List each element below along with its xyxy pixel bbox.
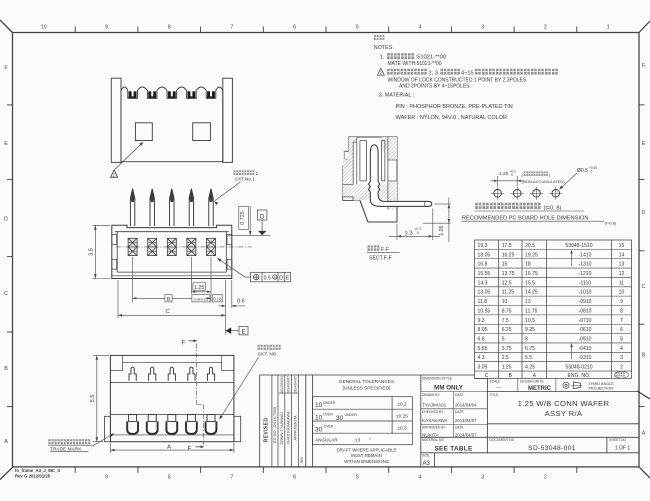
svg-text:NOTES: NOTES (374, 45, 393, 51)
dimension A (110, 443, 233, 453)
svg-text:9: 9 (105, 24, 108, 30)
frame zone numbers bottom (105, 475, 547, 481)
dimension 0.725 (228, 206, 271, 235)
svg-text:3: 3 (481, 24, 484, 30)
svg-text:B: B (167, 297, 171, 303)
dimension 1.25 pitch (191, 257, 211, 303)
svg-text:18.05: 18.05 (478, 252, 491, 258)
svg-text:3.75: 3.75 (502, 346, 512, 352)
svg-text:MATE WITH:51021-**00: MATE WITH:51021-**00 (388, 61, 442, 67)
dimension 5.5 (93, 355, 109, 441)
third angle projection symbol (563, 382, 582, 389)
svg-text:±0.2: ±0.2 (397, 401, 407, 407)
position tolerance frame (218, 259, 291, 282)
svg-text:SCALE: SCALE (490, 380, 502, 384)
svg-text:MUST REMAIN: MUST REMAIN (351, 453, 382, 458)
svg-text:CKT. NO.: CKT. NO. (258, 352, 278, 358)
top view housing (111, 78, 232, 162)
bottom view solder tails (127, 415, 216, 434)
svg-text:2014/04/04: 2014/04/04 (455, 402, 477, 407)
svg-text:B: B (4, 366, 8, 372)
svg-text:8.05: 8.05 (478, 327, 488, 333)
svg-text:SHEET NO: SHEET NO (609, 438, 626, 442)
svg-text:16.8: 16.8 (478, 262, 488, 268)
svg-text:DRWN:TYAJIMA01: DRWN:TYAJIMA01 (280, 412, 284, 445)
svg-text:8.75: 8.75 (502, 308, 512, 314)
svg-text:-0710: -0710 (578, 318, 591, 324)
svg-text:F-F: F-F (381, 247, 389, 253)
svg-text:10.55: 10.55 (478, 308, 491, 314)
trade mark label (48, 439, 90, 444)
svg-text:(t=0. 8): (t=0. 8) (544, 206, 562, 212)
svg-text:20.5: 20.5 (525, 243, 535, 249)
svg-text:16.75: 16.75 (525, 271, 538, 277)
svg-text:PIN : PHOSPHOR BRONZE, PRE-PLA: PIN : PHOSPHOR BRONZE, PRE-PLATED TIN (396, 104, 513, 110)
svg-text:4: 4 (419, 24, 422, 30)
front view centerline (116, 246, 252, 248)
svg-text:RECOMMENDED PC BOARD HOLE DIME: RECOMMENDED PC BOARD HOLE DIMENSION (462, 216, 589, 222)
svg-text:A3: A3 (423, 461, 431, 467)
svg-text:15: 15 (619, 243, 625, 249)
svg-text:GENERAL TOLERANCES: GENERAL TOLERANCES (339, 379, 394, 384)
svg-text:5.5: 5.5 (90, 395, 96, 403)
svg-text:3. MATERIAL :: 3. MATERIAL : (379, 92, 414, 98)
CKT NO label (258, 345, 281, 350)
svg-text:SD-53048-001: SD-53048-001 (528, 445, 576, 452)
svg-text:10: 10 (41, 24, 47, 30)
svg-text:53048-1510: 53048-1510 (565, 243, 592, 249)
svg-text:DOCUMENT NO: DOCUMENT NO (490, 438, 515, 442)
svg-text:C: C (165, 309, 169, 315)
table header kyokusuu oval (614, 371, 628, 378)
svg-text:10: 10 (502, 299, 508, 305)
svg-text:-1010: -1010 (578, 290, 591, 296)
svg-text:-0810: -0810 (578, 308, 591, 314)
svg-text:SECT.F-F: SECT.F-F (369, 256, 392, 262)
svg-text:5: 5 (356, 24, 359, 30)
svg-text:----: ---- (496, 385, 503, 390)
section label SECT F-F (368, 245, 380, 250)
svg-text:DATE: DATE (455, 426, 464, 430)
svg-text:3: 3 (620, 355, 623, 361)
svg-text:0: 0 (591, 170, 593, 174)
svg-text:14.3: 14.3 (478, 280, 488, 286)
dimension 1.05 (423, 198, 451, 243)
svg-text:2, 3: 2, 3 (429, 70, 438, 76)
svg-text:-0310: -0310 (578, 355, 591, 361)
scale and units row (518, 378, 556, 391)
svg-text:1.25: 1.25 (499, 171, 509, 177)
svg-text:18: 18 (525, 262, 531, 268)
svg-text:2014/04/07: 2014/04/07 (455, 418, 477, 423)
svg-text:DATE: DATE (455, 410, 464, 414)
svg-text:8: 8 (620, 308, 623, 314)
svg-text:8: 8 (168, 475, 171, 481)
datum D (257, 210, 267, 231)
svg-text:5.55: 5.55 (478, 346, 488, 352)
svg-text:REV: REV (300, 456, 304, 463)
svg-text:1.: 1. (380, 55, 385, 61)
note 2 leader and triangle (111, 143, 142, 177)
svg-text:5: 5 (620, 337, 623, 343)
svg-text:4.25: 4.25 (525, 365, 535, 371)
svg-text:13: 13 (619, 262, 625, 268)
svg-text:(t=0.8): (t=0.8) (605, 220, 617, 225)
svg-text:A: A (642, 431, 646, 437)
svg-text:2014/04/07: 2014/04/07 (455, 432, 477, 437)
top view lock windows (135, 123, 210, 141)
svg-text:6: 6 (293, 475, 296, 481)
svg-text:DIMENSION STYLE: DIMENSION STYLE (422, 376, 453, 380)
svg-text:13.05: 13.05 (478, 290, 491, 296)
svg-text:fo_frame_A3_J_MC_S: fo_frame_A3_J_MC_S (15, 468, 60, 473)
svg-text:C: C (642, 284, 646, 290)
section line F-F (189, 341, 204, 447)
svg-text:15.5: 15.5 (525, 280, 535, 286)
svg-text:DATE: DATE (455, 393, 464, 397)
svg-text:8: 8 (168, 24, 171, 30)
svg-text:WITHIN DIMENSIONS: WITHIN DIMENSIONS (344, 459, 389, 464)
title text (490, 393, 610, 418)
svg-text:1 OF 1: 1 OF 1 (615, 445, 631, 451)
frame id text (15, 468, 60, 479)
general tolerances block (313, 397, 413, 445)
svg-text:2.3: 2.3 (404, 230, 413, 237)
bottom view pin tips (129, 367, 215, 381)
svg-text:4: 4 (620, 346, 623, 352)
svg-text:15.55: 15.55 (478, 271, 491, 277)
svg-text:1.25 W/B CONN WAFER: 1.25 W/B CONN WAFER (518, 399, 610, 408)
svg-text:D: D (642, 210, 646, 216)
svg-text:3.05: 3.05 (478, 365, 488, 371)
dimension style / sign-off column (421, 392, 488, 438)
svg-text:±0.3: ±0.3 (397, 426, 407, 432)
svg-text:0.725: 0.725 (240, 211, 246, 225)
svg-text:6.25: 6.25 (502, 327, 512, 333)
dimension table (475, 240, 632, 378)
svg-text:THIRD ANGLE: THIRD ANGLE (589, 382, 615, 386)
svg-text:SIZE: SIZE (422, 453, 430, 457)
svg-text:1.25: 1.25 (194, 285, 205, 291)
svg-text:B: B (509, 373, 513, 379)
front view housing body (112, 225, 232, 278)
svg-text:10: 10 (315, 402, 323, 409)
svg-text:-1110: -1110 (579, 280, 591, 286)
table ditto arrows (571, 251, 573, 267)
svg-text:11.8: 11.8 (478, 299, 488, 305)
svg-text:OVER: OVER (324, 424, 334, 428)
svg-text:53048-0210: 53048-0210 (565, 365, 592, 371)
svg-text:2: 2 (544, 24, 547, 30)
svg-text:5: 5 (502, 337, 505, 343)
front view pins (130, 189, 213, 226)
pcb pitch dimension 1.25 (491, 176, 525, 186)
dimension 3.5 (93, 225, 111, 278)
svg-text:6: 6 (620, 327, 623, 333)
svg-text:2.5: 2.5 (502, 355, 509, 361)
svg-text:F: F (188, 446, 192, 452)
svg-text:METRIC: METRIC (528, 386, 552, 392)
svg-text:KASAKAWA: KASAKAWA (422, 418, 448, 423)
svg-text:6.8: 6.8 (478, 337, 485, 343)
svg-text:OVER: OVER (323, 413, 333, 417)
svg-text:12.5: 12.5 (502, 280, 512, 286)
svg-text:4~15: 4~15 (461, 70, 474, 76)
title block outline (260, 375, 639, 467)
svg-text:2014/04/07: 2014/04/07 (287, 376, 291, 394)
svg-text:APPR:NUKITA: APPR:NUKITA (293, 415, 297, 441)
section view lower flap (360, 200, 397, 222)
svg-text:0: 0 (511, 173, 513, 177)
svg-text:NUKITA: NUKITA (422, 432, 439, 437)
datum E (226, 328, 232, 334)
dimension 0.6 (219, 280, 246, 308)
svg-text:16.25: 16.25 (502, 252, 515, 258)
svg-text:10: 10 (619, 290, 625, 296)
svg-text:DESIGN UNITS: DESIGN UNITS (520, 380, 544, 384)
svg-text:19.3: 19.3 (478, 243, 488, 249)
svg-text:1.25: 1.25 (502, 365, 512, 371)
frame zone letters right (642, 63, 646, 437)
svg-text:0.5: 0.5 (264, 276, 271, 282)
svg-text:REVISED: REVISED (264, 418, 270, 443)
svg-text:±3: ±3 (355, 437, 361, 442)
svg-text:0.4±0.05: 0.4±0.05 (194, 297, 208, 301)
svg-text:E: E (642, 141, 646, 147)
bottom view housing (105, 355, 241, 441)
svg-text:SEE TABLE: SEE TABLE (434, 446, 473, 453)
frame zone numbers top (41, 24, 610, 30)
svg-text:9.3: 9.3 (478, 318, 485, 324)
svg-text:17.5: 17.5 (502, 243, 512, 249)
svg-text:7.5: 7.5 (502, 318, 509, 324)
svg-text:1: 1 (256, 171, 259, 176)
svg-text:AND 2POINTS BY 4~15POLES.: AND 2POINTS BY 4~15POLES. (399, 83, 471, 89)
svg-text:MATERIAL NO: MATERIAL NO (422, 438, 444, 442)
svg-text:A: A (167, 445, 171, 451)
svg-text:11: 11 (619, 280, 624, 286)
svg-text:±0.25: ±0.25 (396, 414, 408, 420)
svg-text:-0910: -0910 (578, 299, 591, 305)
svg-text:1: 1 (607, 24, 610, 30)
svg-text:2: 2 (620, 365, 623, 371)
svg-text:9: 9 (620, 299, 623, 305)
svg-text:7: 7 (230, 24, 233, 30)
svg-text:ENG. NO.: ENG. NO. (568, 373, 591, 379)
svg-text:-1310: -1310 (578, 262, 591, 268)
svg-text:UNDER: UNDER (345, 413, 358, 417)
dimension C (118, 280, 226, 335)
svg-text:7: 7 (620, 318, 623, 324)
svg-text:APPROVED BY: APPROVED BY (422, 426, 446, 430)
CKT No.1 label (234, 170, 255, 175)
svg-text:DRAWN BY: DRAWN BY (422, 393, 440, 397)
svg-text:D: D (4, 217, 8, 223)
svg-text:E: E (285, 276, 289, 282)
document number row (490, 438, 631, 452)
svg-text:UNDER: UNDER (323, 401, 336, 405)
svg-text:5.5: 5.5 (525, 355, 532, 361)
svg-text:2014/04/04: 2014/04/04 (280, 376, 284, 394)
svg-text:1.05: 1.05 (439, 225, 445, 235)
svg-text:B: B (642, 353, 646, 359)
svg-text:-1410: -1410 (578, 252, 591, 258)
section view housing hatched (343, 137, 397, 222)
svg-text:14: 14 (619, 252, 625, 258)
svg-text:19.25: 19.25 (525, 252, 538, 258)
svg-text:6.75: 6.75 (525, 346, 535, 352)
svg-text:4.3: 4.3 (478, 355, 485, 361)
svg-text:2014/04/07: 2014/04/07 (293, 376, 297, 394)
svg-text:-1210: -1210 (578, 271, 591, 277)
svg-text:DRAFT WHERE APPLICABLE: DRAFT WHERE APPLICABLE (337, 447, 397, 452)
svg-text:10: 10 (315, 414, 323, 421)
svg-text:-0510: -0510 (578, 337, 591, 343)
svg-text:CHKD:KASAKAWA: CHKD:KASAKAWA (287, 411, 291, 444)
svg-text:E: E (4, 141, 8, 147)
pcb caption japanese (475, 203, 540, 209)
svg-text:F: F (182, 340, 186, 346)
svg-text:11.75: 11.75 (525, 308, 538, 314)
svg-text:C: C (4, 291, 8, 297)
svg-text:12: 12 (619, 271, 625, 277)
section view inner walls (343, 137, 397, 209)
dimension 2.3 (389, 209, 440, 241)
svg-text:9: 9 (105, 475, 108, 481)
svg-text:9.25: 9.25 (525, 327, 535, 333)
svg-text:8: 8 (525, 337, 528, 343)
top view contact slots (129, 91, 215, 98)
svg-text:TITLE: TITLE (490, 393, 500, 397)
svg-text:CHECKED BY: CHECKED BY (422, 410, 444, 414)
svg-text:13.75: 13.75 (502, 271, 515, 277)
svg-text:TYAJIMA01: TYAJIMA01 (422, 402, 447, 407)
svg-text::51021-**00: :51021-**00 (416, 55, 447, 61)
svg-text:13: 13 (525, 299, 531, 305)
svg-text:PROJECTION: PROJECTION (589, 387, 614, 391)
svg-text:3.5: 3.5 (89, 248, 95, 256)
svg-text:-0610: -0610 (578, 327, 591, 333)
svg-text:10.5: 10.5 (525, 318, 535, 324)
svg-text:-0410: -0410 (578, 346, 591, 352)
front view contacts crosshatched (128, 238, 215, 255)
svg-text:6: 6 (293, 24, 296, 30)
svg-text:MM ONLY: MM ONLY (434, 385, 464, 392)
svg-text:4: 4 (419, 475, 422, 481)
svg-text:CKT.No.1: CKT.No.1 (235, 177, 255, 182)
svg-text:0.6: 0.6 (237, 299, 245, 305)
pcb hole circles (491, 187, 562, 200)
svg-text:0.18: 0.18 (213, 297, 222, 302)
svg-text:(NON-ACCUMULATED): (NON-ACCUMULATED) (522, 179, 566, 184)
svg-text:ASSY R/A: ASSY R/A (545, 409, 583, 418)
svg-text:30: 30 (315, 426, 323, 433)
svg-text:A: A (4, 439, 8, 445)
svg-text:2: 2 (544, 475, 547, 481)
svg-text:D: D (279, 276, 283, 282)
svg-text:3: 3 (481, 475, 484, 481)
svg-text:EC NO. J2014-7500: EC NO. J2014-7500 (272, 406, 277, 443)
svg-text:ANGULAR: ANGULAR (315, 437, 338, 442)
svg-text:Ø0.5: Ø0.5 (577, 168, 588, 174)
revision block (272, 375, 298, 467)
svg-text:D: D (260, 213, 265, 220)
svg-text:7: 7 (230, 475, 233, 481)
svg-text:M: M (274, 276, 277, 280)
svg-text:11.25: 11.25 (502, 290, 515, 296)
svg-text:14.25: 14.25 (525, 290, 538, 296)
dimension B row (133, 257, 223, 303)
svg-text:°: ° (369, 437, 371, 442)
section view pin (369, 145, 432, 207)
svg-text:(UNLESS SPECIFIED): (UNLESS SPECIFIED) (343, 385, 391, 390)
svg-text:15: 15 (502, 262, 508, 268)
notes block (374, 35, 558, 121)
svg-text:5: 5 (356, 475, 359, 481)
svg-text:A: A (533, 373, 537, 379)
frame zone letters left (4, 66, 8, 445)
svg-text:E: E (241, 329, 245, 335)
svg-text:30: 30 (336, 415, 344, 422)
svg-text:Rev G 2012/01/25: Rev G 2012/01/25 (15, 474, 51, 479)
svg-text:WAFER : NYLON, 94V-0 , NATURAL: WAFER : NYLON, 94V-0 , NATURAL COLOR (396, 115, 507, 121)
